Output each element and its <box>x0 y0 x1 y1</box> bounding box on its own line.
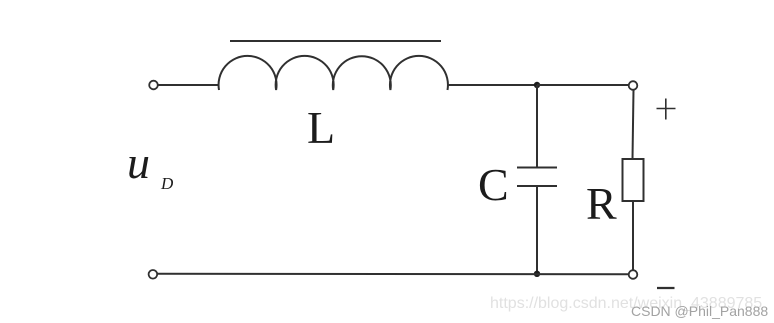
capacitor C top lead <box>536 85 538 167</box>
wire from top node to + terminal <box>537 84 629 86</box>
output terminal - (open circle) <box>629 270 638 279</box>
junction node top of C <box>534 82 540 88</box>
capacitor C plates <box>517 167 557 169</box>
resistor R top lead <box>633 90 634 159</box>
label R <box>586 177 617 230</box>
resistor R body <box>623 159 644 201</box>
junction node bottom of C <box>534 271 540 277</box>
wire from input terminal to inductor <box>158 84 220 86</box>
label u_D subscript D <box>161 174 173 194</box>
resistor R bottom lead <box>632 201 634 270</box>
inductor L coil <box>219 56 448 90</box>
watermark CSDN author <box>631 303 768 319</box>
inductor L core bar <box>230 40 441 42</box>
label u_D (source voltage) <box>127 136 150 189</box>
plus sign <box>657 99 676 120</box>
output terminal + (open circle) <box>629 81 638 90</box>
bottom return wire <box>158 273 629 275</box>
input terminal bottom-left <box>149 270 158 279</box>
input terminal top-left <box>149 81 158 90</box>
capacitor C bottom lead <box>536 186 538 274</box>
label L <box>307 101 335 154</box>
label C <box>478 158 509 211</box>
watermark url <box>490 295 762 313</box>
minus sign <box>657 287 675 289</box>
wire from inductor to top node <box>448 84 538 86</box>
